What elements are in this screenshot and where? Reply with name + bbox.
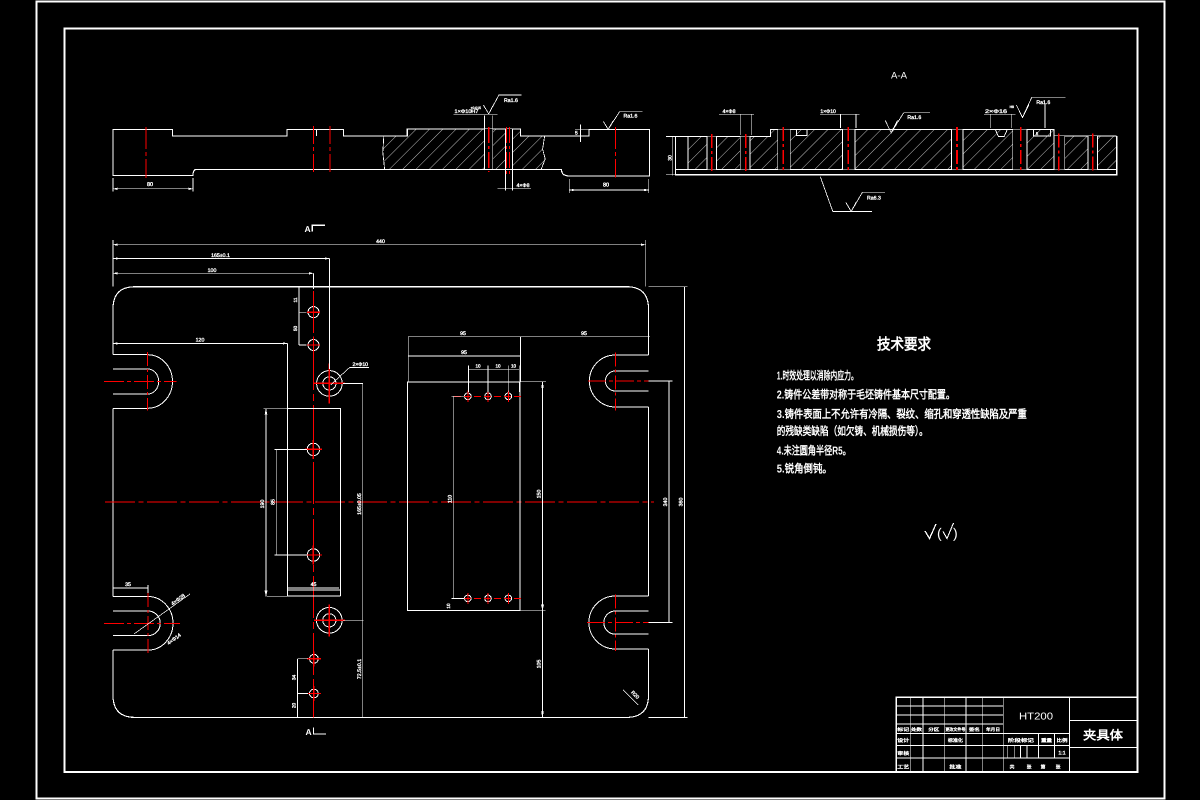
A-A hole band 7 red centerline (1058, 133, 1060, 172)
A-A surface mark Ra1.6 middle (885, 121, 897, 133)
svg-text:50: 50 (293, 326, 299, 332)
svg-text:4.未注圆角半径R5。: 4.未注圆角半径R5。 (777, 444, 851, 457)
svg-text:1×Φ10: 1×Φ10 (820, 109, 836, 115)
A-A bottom plate strip (675, 136, 1116, 175)
svg-text:10: 10 (511, 364, 517, 369)
svg-text:360: 360 (679, 498, 685, 507)
dimension 190 pocket height (265, 409, 267, 597)
svg-text:Ra1.6: Ra1.6 (1036, 100, 1050, 106)
main view hole 2 bore (505, 129, 512, 169)
bottom-left open slot outer (113, 597, 173, 651)
A-A hole band 2 (740, 136, 750, 169)
svg-text:): ) (953, 525, 958, 541)
title block right column lines (1069, 719, 1137, 721)
svg-text:标记: 标记 (897, 727, 910, 732)
bottom-left open slot inner (113, 611, 160, 636)
svg-text:100: 100 (208, 268, 217, 274)
A-A hole band 1 (707, 136, 716, 169)
top small hole 2 (308, 340, 319, 351)
dimension 100 to hole line (113, 272, 314, 274)
svg-text:A: A (305, 224, 311, 234)
svg-text:A: A (306, 727, 312, 737)
main view local section hatch (383, 129, 545, 170)
A-A section hatched body (688, 130, 1117, 170)
three-hole row top (465, 393, 472, 400)
svg-text:165±0.1: 165±0.1 (211, 253, 230, 259)
main view centerline dowel hole 1 (488, 127, 490, 172)
svg-text:10: 10 (446, 603, 451, 609)
main view centerline hole B (329, 126, 331, 173)
svg-text:Ra1.6: Ra1.6 (504, 98, 518, 104)
svg-text:的残缺类缺陷（如欠铸、机械损伤等）。: 的残缺类缺陷（如欠铸、机械损伤等）。 (777, 424, 928, 438)
svg-text:4×Φ8: 4×Φ8 (723, 109, 736, 115)
dimension 80 right foot (568, 179, 570, 193)
A-A bottom surface mark Ra6.3 with leader (820, 177, 872, 212)
svg-text:HT200: HT200 (1019, 712, 1053, 723)
A-A dimension 1xPhi10 (839, 114, 841, 128)
mid-left open slot inner (113, 369, 159, 394)
dimension 1xPhi10H7 with callout (484, 116, 486, 129)
svg-text:11: 11 (293, 297, 299, 302)
svg-text:72.5±0.1: 72.5±0.1 (357, 659, 363, 679)
svg-text:105: 105 (537, 660, 543, 669)
main view centerline right slot (615, 127, 617, 178)
svg-text:30: 30 (668, 155, 674, 161)
svg-text:签名: 签名 (969, 727, 980, 732)
svg-text:95: 95 (461, 350, 467, 356)
svg-text:H8: H8 (1010, 105, 1014, 109)
svg-text:340: 340 (663, 498, 669, 507)
main view hatch ragged right edge (541, 136, 545, 169)
dimension 34 / 20 bottom holes (296, 659, 298, 718)
A-A hole band 7 (1054, 136, 1065, 170)
plan view plate outline with corner radii and slot gaps (113, 287, 649, 309)
dimension 165 to positioning hole (113, 258, 329, 260)
mid-left open slot outer (113, 355, 172, 409)
svg-text:110: 110 (448, 495, 454, 503)
title block scale/weight cells (1038, 734, 1040, 759)
svg-text:标准化: 标准化 (948, 737, 963, 744)
A-A surface mark Ra1.6 right (1044, 104, 1046, 128)
dimension 85 hole spacing (275, 449, 277, 555)
dimension 4xPhi8 below (504, 169, 506, 190)
svg-text:150: 150 (537, 490, 543, 499)
dimension 5 right boss height (575, 128, 589, 130)
main view centerline dowel hole 2 (505, 127, 507, 174)
positioning hole 2xPhi10 top (317, 371, 343, 397)
right pocket top edge extension to dim (520, 381, 546, 383)
svg-text:共: 共 (1010, 765, 1015, 771)
svg-text:440: 440 (376, 239, 385, 245)
title block vertical lines left table (909, 697, 911, 772)
bottom small hole 1 (310, 654, 319, 663)
svg-text:重量: 重量 (1041, 738, 1052, 744)
dimension 35 bottom-left slot (113, 587, 148, 589)
A-A hole band 4 red centerline (847, 127, 849, 172)
svg-text:A-A: A-A (891, 71, 908, 82)
three-hole row bottom leader (452, 597, 465, 599)
A-A hole band 5 (951, 130, 962, 170)
main view centerline hole A (313, 126, 315, 173)
surface finish mark Ra1.6 over hole 1 (483, 105, 493, 114)
A-A dimension 30 height left (672, 136, 674, 175)
A-A hole band 2 red centerline (745, 134, 747, 172)
plate left edge segments (112, 309, 114, 355)
svg-text:85: 85 (270, 499, 276, 505)
main view centerline left slot (145, 127, 147, 178)
svg-text:5: 5 (575, 130, 578, 136)
three-hole row bottom (465, 595, 472, 602)
three-hole row top leader (452, 395, 465, 397)
bottom-right open slot inner (604, 611, 649, 634)
svg-text:120: 120 (196, 338, 205, 344)
bottom-right open slot outer (589, 596, 649, 649)
svg-text:2.铸件公差带对称于毛坯铸件基本尺寸配置。: 2.铸件公差带对称于毛坯铸件基本尺寸配置。 (777, 389, 955, 402)
A-A dimension 4xPhi8 top-left (739, 114, 741, 135)
positioning hole 2xPhi10 bottom (317, 608, 343, 634)
A-A hole band 8 red centerline (1092, 133, 1094, 172)
mid-left slot red centerlines (104, 380, 177, 382)
svg-text:Ra1.6: Ra1.6 (907, 115, 921, 121)
dimension 360 total height right (684, 287, 686, 718)
A-A hole band 3 (778, 130, 791, 170)
dimension 340 right slots spacing (668, 381, 670, 623)
top-right open slot outer (589, 355, 648, 407)
A-A hole band 1 red centerline (711, 134, 713, 172)
svg-text:95: 95 (460, 331, 466, 337)
A-A dimension counterbore callout (989, 114, 991, 128)
svg-text:1.时效处理以消除内应力。: 1.时效处理以消除内应力。 (777, 369, 858, 383)
dimension 95 / 95 above right pocket (408, 336, 650, 338)
A-A hole band 6 red centerline (1020, 127, 1022, 172)
left pocket hole bottom (307, 549, 319, 561)
svg-text:处数: 处数 (911, 727, 923, 732)
svg-text:分区: 分区 (928, 727, 940, 732)
right pocket bottom edge extension to dim (520, 610, 545, 612)
A-A top notch 3 (1033, 130, 1050, 137)
label R20 bottom-right corner (623, 690, 638, 705)
svg-text:34: 34 (291, 675, 297, 681)
svg-text:Ra6.3: Ra6.3 (867, 196, 881, 202)
dimension 45 pocket width (288, 587, 339, 589)
top-right slot red centerlines (588, 380, 654, 382)
A-A hole band 5 red centerline (956, 127, 958, 172)
svg-text:1×Φ10H7: 1×Φ10H7 (455, 109, 479, 115)
A-A top notch 1 (797, 130, 807, 136)
svg-text:阶段标记: 阶段标记 (1008, 737, 1034, 744)
svg-text:年月日: 年月日 (986, 727, 1000, 732)
svg-text:比例: 比例 (1057, 737, 1068, 744)
top small hole 1 (308, 307, 319, 318)
svg-text:设计: 设计 (897, 737, 909, 744)
svg-text:80: 80 (603, 183, 609, 189)
title block horizontal lines left table (896, 705, 1003, 707)
A-A top notch 2 (countersink) (995, 130, 1007, 137)
bottom-right slot red centerlines (587, 622, 651, 624)
A-A hole band 4 (842, 130, 855, 170)
svg-text:工艺: 工艺 (897, 764, 909, 771)
svg-text:35: 35 (125, 582, 131, 588)
svg-text:1:1: 1:1 (1058, 751, 1065, 757)
svg-text:3.铸件表面上不允许有冷隔、裂纹、缩孔和穿透性缺陷及严重: 3.铸件表面上不允许有冷隔、裂纹、缩孔和穿透性缺陷及严重 (777, 407, 1027, 421)
dimension 440 overall width (112, 240, 114, 287)
dimension line 165 / 72.5 between positioning holes (362, 383, 364, 717)
left pocket top edge extension (263, 408, 287, 410)
A-A hole band 6 (1013, 130, 1027, 170)
surface finish mark Ra1.6 on right boss (603, 121, 613, 129)
svg-text:20: 20 (291, 703, 297, 709)
svg-text:审核: 审核 (897, 750, 909, 757)
svg-text:第: 第 (1041, 764, 1046, 771)
A-A hole band 3 red centerline (782, 127, 784, 172)
svg-text:10: 10 (495, 364, 501, 369)
svg-text:技术要求: 技术要求 (877, 336, 931, 354)
plate right edge segments (648, 309, 650, 355)
left pocket rectangle (287, 409, 340, 590)
overall surface roughness mark (925, 524, 936, 539)
dimension 11 / 50 top holes (298, 288, 300, 346)
main view boss divider (315, 130, 317, 136)
svg-text:夹具体: 夹具体 (1083, 729, 1124, 743)
svg-text:更改文件号: 更改文件号 (945, 727, 966, 732)
top-right open slot inner (605, 371, 648, 391)
label 2xPhi10 with leader (350, 366, 369, 368)
label 4x slot with diagonal leader (134, 594, 190, 634)
bottom small hole 2 (310, 689, 319, 698)
A-A cutting plane line (vertical red) (313, 291, 315, 717)
svg-text:10: 10 (475, 364, 481, 369)
svg-text:张: 张 (1027, 765, 1032, 771)
svg-text:4×Φ8: 4×Φ8 (517, 183, 530, 189)
main view hole 1 bore (dowel hole) (485, 129, 493, 169)
svg-text:165±0.05: 165±0.05 (357, 493, 363, 515)
dimension 80 left foot (112, 178, 114, 192)
dimension 110 hole rows (453, 396, 455, 598)
svg-text:(: ( (937, 525, 942, 541)
A-A left wall (unhatched) (675, 136, 687, 169)
svg-text:45: 45 (311, 582, 317, 588)
right pocket rectangle (408, 382, 521, 611)
svg-text:0: 0 (471, 109, 473, 113)
left pocket hole top (307, 443, 319, 455)
main view outline (113, 129, 649, 176)
bottom-left slot red centerlines (104, 622, 180, 624)
svg-text:190: 190 (260, 500, 266, 509)
svg-text:Ra1.6: Ra1.6 (624, 114, 638, 120)
plan horizontal main centerline (105, 501, 654, 503)
svg-text:80: 80 (147, 182, 153, 188)
title block outer frame (896, 697, 1137, 772)
A-A hole band 8 (1088, 136, 1098, 170)
dimension line 150/150 right of pockets (542, 382, 544, 718)
svg-text:5.锐角倒钝。: 5.锐角倒钝。 (777, 462, 832, 475)
svg-text:2×Φ16: 2×Φ16 (985, 109, 1007, 115)
svg-text:张: 张 (1056, 765, 1061, 771)
svg-text:95: 95 (581, 331, 587, 337)
dimension 120 to pocket (113, 342, 287, 344)
svg-text:2×Φ10: 2×Φ10 (353, 362, 369, 368)
svg-text:批准: 批准 (949, 764, 961, 771)
dimension 10 10 10 hole spacing (469, 369, 520, 371)
dimension 95 second line (408, 355, 520, 357)
main view hatch ragged left edge (383, 136, 385, 169)
